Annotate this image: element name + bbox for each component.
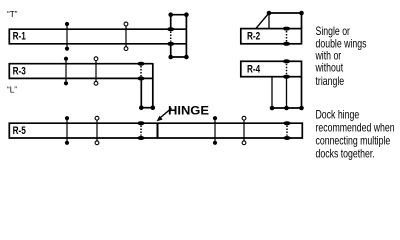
L leg dock bottom edge <box>141 107 154 109</box>
svg-text:R-3: R-3 <box>13 65 27 78</box>
dock R-3 left edge <box>8 63 10 79</box>
T cross dock top edge <box>170 14 187 16</box>
wing left upright of R-2 <box>268 13 270 29</box>
svg-text:double wings: double wings <box>316 39 367 51</box>
svg-text:Single or: Single or <box>316 26 351 38</box>
under-wing bottom rail of R-4 <box>271 107 303 109</box>
dock R-3 bottom edge <box>9 77 154 79</box>
T cross dock corner dots <box>168 12 188 59</box>
T cross dock left edge upper segment <box>170 14 172 28</box>
hinge dotted connector on R-2 <box>286 31 288 42</box>
piling post (filled) on R-1 <box>65 22 69 51</box>
dock R-1 left edge <box>8 29 10 45</box>
svg-text:R-1: R-1 <box>13 31 27 44</box>
hinge dotted connector on R-4 <box>286 64 288 75</box>
dock R-5 bottom edge <box>9 137 304 139</box>
svg-text:“T”: “T” <box>7 10 18 19</box>
piling post (filled) on R-3 <box>64 57 68 86</box>
section joint line on R-5 <box>157 123 159 139</box>
L leg dock left edge (below hinge) <box>140 80 142 108</box>
svg-text:Dock hinge: Dock hinge <box>316 109 360 121</box>
piling post (open) on R-5 right <box>242 116 246 144</box>
svg-text:with or: with or <box>315 50 342 62</box>
svg-text:without: without <box>315 63 344 75</box>
T cross dock left edge lower segment <box>170 45 172 58</box>
dock R-4 rectangle <box>241 61 302 76</box>
L leg dock right edge <box>152 63 154 108</box>
svg-text:R-4: R-4 <box>247 63 261 76</box>
hinge ovals mid R-5 <box>137 121 144 125</box>
hinge ovals on T junction <box>167 27 174 31</box>
T cross dock right edge <box>185 14 187 58</box>
dock R-1 top edge <box>9 28 187 30</box>
hinge ovals on R-2 <box>283 27 290 31</box>
hinge ovals on R-4 <box>283 59 290 63</box>
svg-text:R-2: R-2 <box>247 31 261 44</box>
svg-text:“L”: “L” <box>7 86 17 95</box>
piling post (open) on R-1 <box>124 22 128 50</box>
under-wing middle upright of R-4 <box>286 77 288 108</box>
text block: single or double wings <box>315 26 367 88</box>
hinge dotted connector at right end of R-5 <box>286 126 288 136</box>
wing end dots of R-2 <box>267 11 272 16</box>
svg-text:docks together.: docks together. <box>316 148 375 160</box>
hinge dotted connector on L junction <box>140 66 142 76</box>
dock R-5 right edge <box>301 123 303 139</box>
piling post (filled) on R-5 left <box>65 116 69 145</box>
T cross dock bottom edge <box>170 56 187 58</box>
svg-text:R-5: R-5 <box>13 125 27 138</box>
dock R-2 rectangle <box>241 29 302 44</box>
svg-text:connecting multiple: connecting multiple <box>316 135 391 147</box>
under-wing left upright of R-4 <box>271 77 273 108</box>
wing right upright of R-2 <box>301 13 303 29</box>
hinge arrow head <box>157 116 163 122</box>
svg-text:HINGE: HINGE <box>168 104 209 117</box>
under-wing right upright of R-4 <box>301 77 303 108</box>
piling post (open) on R-5 left <box>95 116 99 144</box>
text block: dock hinge note <box>316 109 395 160</box>
hinge dotted connector on T junction <box>170 32 172 42</box>
hinge ovals at right end of R-5 <box>283 121 290 125</box>
piling post (filled) on R-5 right <box>213 116 217 145</box>
piling post (open) on R-3 <box>94 57 98 85</box>
under-wing end dots of R-4 <box>270 106 275 111</box>
wing triangle brace of R-2 <box>256 13 269 29</box>
hinge dotted connector mid R-5 <box>140 126 142 136</box>
dock R-5 left edge <box>8 123 10 139</box>
hinge ovals on L junction <box>137 62 144 66</box>
hinge arrow shaft <box>161 108 172 117</box>
dock R-3 top edge <box>9 63 154 65</box>
svg-text:triangle: triangle <box>316 76 345 88</box>
wing top rail of R-2 <box>269 12 302 14</box>
dock R-1 bottom edge <box>9 43 187 45</box>
svg-text:recommended when: recommended when <box>316 122 395 134</box>
dock R-5 top edge <box>9 122 304 124</box>
L leg dock corner dots <box>139 105 144 110</box>
